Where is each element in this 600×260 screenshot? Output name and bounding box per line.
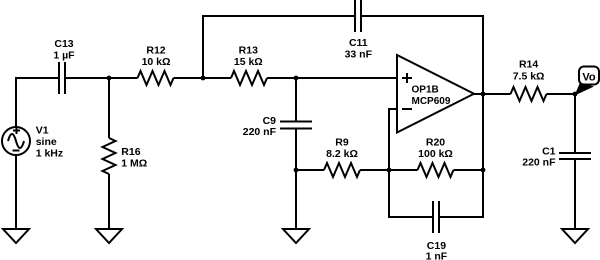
svg-text:15 kΩ: 15 kΩ [234, 56, 263, 68]
resistor R12 [138, 45, 174, 86]
wire junction to R9 [296, 169, 324, 171]
wire V1 bottom to ground [15, 155, 17, 229]
svg-text:33 nF: 33 nF [345, 49, 373, 61]
wire C11 to output riser [362, 16, 483, 94]
wire R16 top [108, 78, 110, 138]
ground below C9 [283, 229, 309, 243]
svg-text:R16: R16 [121, 146, 140, 158]
wire Vo node to C1 [574, 94, 576, 153]
resistor R20 [418, 137, 454, 178]
svg-text:R14: R14 [519, 59, 538, 71]
ground below C1 [562, 229, 588, 243]
svg-text:1 nF: 1 nF [426, 251, 448, 260]
source V1 [2, 125, 63, 160]
svg-text:1 µF: 1 µF [53, 49, 75, 61]
capacitor C9 [243, 115, 312, 138]
svg-text:1 kHz: 1 kHz [36, 147, 63, 159]
svg-text:V1: V1 [36, 125, 49, 137]
svg-text:7.5 kΩ: 7.5 kΩ [513, 70, 545, 82]
op-amp U1 OP1B MCP609 [397, 55, 474, 133]
wire op-amp output to R14 [474, 93, 511, 95]
wire R20 to output riser [454, 169, 484, 171]
resistor R9 [324, 137, 360, 178]
wire R16 bottom to ground [108, 174, 110, 229]
junction R20 right node [481, 168, 486, 173]
svg-text:10 kΩ: 10 kΩ [142, 56, 171, 68]
junction C9/R9/ground node [294, 168, 299, 173]
capacitor C13 [53, 38, 75, 94]
wire junction to ground [295, 170, 297, 229]
wire feedback left riser and top run to C11 [203, 16, 355, 78]
wire R12 to R13 [174, 77, 232, 79]
junction feedback node A [201, 76, 206, 81]
capacitor C11 [345, 0, 373, 61]
wire inverting riser to op-amp minus input [389, 109, 397, 170]
capacitor C1 [522, 145, 591, 168]
svg-text:C11: C11 [349, 37, 368, 49]
node Vo flag [575, 67, 600, 96]
svg-text:OP1B: OP1B [412, 85, 439, 96]
wire input top-left from V1 to C13 [16, 78, 58, 127]
resistor R14 [511, 59, 547, 101]
ground below V1 [3, 229, 29, 243]
ground below R16 [96, 229, 122, 243]
junction C9 tap node [294, 76, 299, 81]
svg-text:1 MΩ: 1 MΩ [121, 158, 147, 170]
wire C19 loop right [440, 170, 483, 217]
wire C9 bottom to R9 row [295, 129, 297, 171]
resistor R13 [231, 45, 267, 86]
svg-text:8.2 kΩ: 8.2 kΩ [326, 148, 358, 160]
svg-text:C13: C13 [54, 38, 73, 50]
junction C13/R16 node [107, 76, 112, 81]
wire R14 to Vo node [547, 93, 576, 95]
resistor R16 [103, 138, 148, 174]
wire C1 bottom to ground [574, 159, 576, 229]
junction Vo node [573, 92, 578, 97]
svg-text:220 nF: 220 nF [243, 126, 277, 138]
wire C19 loop left [389, 170, 433, 217]
svg-text:Vo: Vo [582, 72, 596, 84]
wire C13 to R12 [66, 77, 138, 79]
junction output node [481, 92, 486, 97]
wire R13 to op-amp plus input [267, 77, 397, 79]
svg-text:100 kΩ: 100 kΩ [418, 148, 453, 160]
wire C9 top [295, 78, 297, 122]
svg-text:R9: R9 [335, 137, 349, 149]
svg-text:220 nF: 220 nF [522, 157, 556, 169]
svg-text:sine: sine [36, 136, 57, 148]
wire inverting node to R20 [389, 169, 418, 171]
svg-text:R13: R13 [239, 45, 258, 57]
svg-text:MCP609: MCP609 [412, 96, 451, 107]
junction inverting node [387, 168, 392, 173]
svg-text:R12: R12 [146, 45, 165, 57]
wire R9 to inverting node [360, 169, 389, 171]
svg-text:R20: R20 [426, 137, 445, 149]
wire output riser down to R20 node [482, 94, 484, 170]
capacitor C19 [426, 201, 448, 260]
